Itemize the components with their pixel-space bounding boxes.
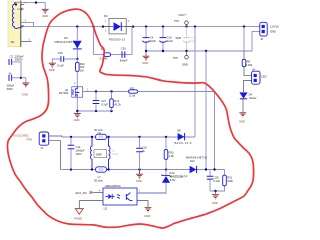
- svg-text:660pF: 660pF: [120, 59, 128, 63]
- svg-text:GND: GND: [74, 118, 80, 122]
- resistor R31: [210, 170, 225, 192]
- node: [76, 25, 78, 27]
- ground: [49, 63, 56, 67]
- svg-text:C19: C19: [121, 47, 126, 51]
- input bus: [62, 136, 195, 138]
- svg-text:GND: GND: [22, 93, 28, 97]
- svg-text:R31: R31: [227, 175, 232, 179]
- resistor R8: [104, 53, 111, 57]
- ground mid: [139, 170, 141, 174]
- svg-text:L7: L7: [98, 175, 101, 179]
- ground LED: [239, 113, 246, 117]
- capacitor C27: [95, 92, 97, 112]
- red annotation loop: [7, 9, 253, 228]
- resistor R9: [243, 27, 245, 51]
- svg-text:A: A: [99, 189, 101, 193]
- svg-text:0.1uF: 0.1uF: [57, 64, 64, 68]
- svg-text:D3: D3: [104, 14, 108, 18]
- ground top: [42, 9, 49, 13]
- svg-text:C14: C14: [75, 145, 80, 149]
- svg-text:C28: C28: [214, 175, 219, 179]
- svg-text:100V: 100V: [75, 152, 81, 156]
- wire top clamp: [16, 3, 45, 9]
- svg-text:L5: L5: [112, 148, 115, 152]
- LED D4: [239, 92, 247, 98]
- svg-text:0.1uF: 0.1uF: [101, 103, 108, 107]
- svg-text:D11: D11: [190, 159, 195, 163]
- GND rail: [146, 31, 260, 51]
- svg-text:PGND: PGND: [74, 217, 82, 221]
- node: [35, 1, 37, 3]
- svg-text:R9: R9: [247, 59, 251, 63]
- svg-text:DNP: DNP: [176, 36, 182, 40]
- node: [76, 58, 78, 60]
- svg-text:MMSZ5236B-T-F: MMSZ5236B-T-F: [169, 175, 187, 179]
- svg-text:1000pF: 1000pF: [75, 148, 84, 152]
- opto pin4 wire: [137, 192, 166, 194]
- svg-text:11uH: 11uH: [112, 152, 118, 156]
- pin 5 stub: [21, 41, 32, 43]
- connector J4 LED: [252, 67, 267, 84]
- svg-text:RTN: RTN: [27, 137, 33, 141]
- transformer T1 yellow body: [8, 1, 21, 47]
- choke L5 DMP: [91, 137, 119, 170]
- svg-text:GND: GND: [144, 214, 150, 218]
- svg-text:22uF: 22uF: [150, 39, 156, 43]
- svg-text:GND: GND: [49, 68, 55, 72]
- svg-text:6.26k: 6.26k: [246, 63, 253, 67]
- svg-text:11.0k: 11.0k: [129, 94, 136, 98]
- svg-text:2000V: 2000V: [15, 58, 23, 62]
- svg-text:B230-13-F: B230-13-F: [175, 141, 192, 145]
- svg-text:NC: NC: [11, 40, 15, 44]
- diode D11: [190, 166, 197, 173]
- bottom bus: [61, 169, 225, 171]
- diode D3 box: [103, 14, 133, 41]
- diode D8: [178, 133, 185, 140]
- svg-text:PDS360-13: PDS360-13: [109, 38, 126, 42]
- svg-text:J4: J4: [252, 67, 255, 71]
- svg-text:U2: U2: [104, 206, 108, 210]
- svg-text:43.2k: 43.2k: [114, 103, 121, 107]
- svg-text:GND: GND: [182, 62, 188, 66]
- svg-text:C19: C19: [58, 51, 63, 55]
- svg-text:D10: D10: [169, 171, 174, 175]
- svg-text:D6: D6: [64, 36, 68, 40]
- svg-text:C27: C27: [101, 99, 106, 103]
- svg-text:GND: GND: [42, 14, 48, 18]
- svg-text:D4: D4: [249, 92, 253, 96]
- optocoupler U2: [103, 184, 137, 210]
- inductor L7: [96, 167, 107, 172]
- svg-text:R11: R11: [130, 86, 135, 90]
- svg-text:2N7002: 2N7002: [59, 91, 69, 95]
- svg-text:22uF: 22uF: [190, 39, 196, 43]
- inductor L6: [96, 134, 107, 139]
- svg-text:0.1uF: 0.1uF: [213, 179, 220, 183]
- svg-text:2.0k: 2.0k: [169, 154, 175, 158]
- resistor R11: [129, 90, 138, 93]
- opto pin3 to gnd: [137, 201, 148, 208]
- svg-text:MMSD4148T1G: MMSD4148T1G: [186, 155, 207, 159]
- svg-text:30 ohm: 30 ohm: [94, 178, 104, 182]
- capacitor C11 DNP ghost: [186, 27, 188, 51]
- svg-text:MMSD4148T1G: MMSD4148T1G: [55, 40, 77, 44]
- capacitor C10: [160, 38, 167, 43]
- svg-text:200pF: 200pF: [7, 83, 15, 87]
- svg-text:DMP: DMP: [96, 153, 102, 157]
- svg-text:J2: J2: [260, 37, 263, 41]
- diode D6 clamp: [76, 27, 78, 40]
- svg-text:GND: GND: [142, 61, 148, 65]
- capacitor C19 gate: [52, 59, 77, 63]
- svg-text:R30: R30: [169, 150, 174, 154]
- resistor R12: [111, 92, 113, 112]
- svg-text:J1: J1: [40, 146, 43, 150]
- svg-text:VOUT: VOUT: [178, 13, 186, 17]
- svg-text:100k: 100k: [227, 179, 233, 183]
- svg-text:L6: L6: [98, 131, 101, 135]
- main bus VOUT rail: [23, 26, 260, 28]
- ground Q1: [76, 111, 78, 113]
- svg-text:AUX_DC: AUX_DC: [75, 191, 87, 195]
- wire x195: [194, 27, 196, 137]
- svg-text:D8: D8: [177, 129, 181, 133]
- transformer primary winding: [12, 3, 23, 29]
- svg-text:Yellow: Yellow: [249, 96, 257, 100]
- capacitor C15: [139, 137, 141, 170]
- resistor R30: [165, 137, 167, 170]
- svg-text:6.8V: 6.8V: [170, 178, 176, 182]
- svg-text:12V/1A: 12V/1A: [270, 25, 279, 29]
- capacitor C4: [143, 38, 150, 43]
- svg-text:TP5: TP5: [173, 56, 178, 60]
- svg-text:R12: R12: [114, 99, 119, 103]
- wire pin3: [21, 22, 34, 26]
- transformer pin stubs: [21, 5, 24, 26]
- svg-text:6.0-13.2VDC: 6.0-13.2VDC: [13, 134, 29, 138]
- transistor Q1: [59, 87, 83, 97]
- capacitor C28: [209, 170, 211, 192]
- resistor R10: [76, 59, 78, 62]
- svg-text:GND: GND: [136, 179, 142, 183]
- svg-text:1W: 1W: [80, 68, 84, 72]
- ground rail gnd: [145, 51, 147, 56]
- svg-text:600V: 600V: [7, 87, 13, 91]
- opto pin2 to PGND: [79, 201, 103, 209]
- wire pin2 stub: [17, 8, 24, 10]
- svg-text:TP3: TP3: [174, 19, 179, 23]
- svg-text:C2: C2: [10, 55, 14, 59]
- svg-text:GND: GND: [270, 29, 276, 33]
- svg-text:22uF: 22uF: [167, 39, 173, 43]
- snubber loop R8 C19: [94, 27, 133, 55]
- svg-text:HMHA2801A: HMHA2801A: [105, 184, 121, 188]
- connector J2: [260, 22, 279, 41]
- caps C4 C10 across rails: [146, 27, 163, 51]
- test point TP5: [186, 51, 188, 55]
- capacitor C19 snubber: [122, 51, 125, 58]
- wire x206: [205, 51, 207, 170]
- zener D10: [137, 170, 166, 194]
- svg-text:LED: LED: [261, 74, 266, 78]
- svg-text:GND: GND: [212, 201, 218, 205]
- svg-text:GND: GND: [239, 120, 245, 124]
- ground above opto: [139, 170, 141, 174]
- svg-text:C15: C15: [142, 146, 147, 150]
- test point TP3: [186, 25, 188, 27]
- capacitor C14: [70, 137, 72, 170]
